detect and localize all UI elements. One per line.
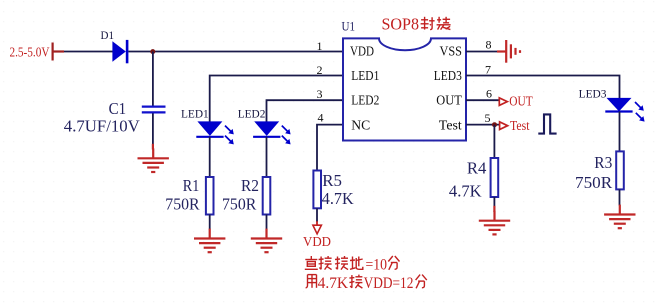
CJK feng	[421, 17, 435, 30]
ground VSS sideways	[497, 40, 520, 63]
svg-text:R4: R4	[467, 159, 487, 178]
svg-text:Test: Test	[439, 118, 462, 133]
LED LED1	[196, 121, 234, 144]
wire U1 pin 3 to LED2	[267, 100, 344, 122]
svg-text:VSS: VSS	[440, 44, 463, 59]
ground R1	[194, 229, 225, 253]
wire D1 to U1 pin 1	[128, 51, 343, 53]
svg-text:LED3: LED3	[579, 88, 607, 100]
port arrow Test	[500, 122, 508, 130]
wire C1 to ground	[152, 113, 154, 144]
resistor R2	[263, 177, 271, 215]
svg-text:SOP8: SOP8	[382, 15, 420, 34]
svg-text:VDD: VDD	[303, 234, 331, 249]
wire U1 pin 4 to R5	[317, 125, 343, 171]
svg-text:VDD=12: VDD=12	[364, 275, 414, 292]
svg-text:750R: 750R	[222, 195, 257, 214]
wire LED1 to R1	[209, 137, 211, 177]
LED LED2	[253, 121, 291, 144]
svg-text:8: 8	[486, 37, 492, 51]
svg-text:R5: R5	[322, 171, 342, 190]
svg-text:R3: R3	[594, 153, 612, 172]
svg-text:750R: 750R	[165, 195, 200, 214]
resistor R3	[616, 151, 624, 189]
resistor R4	[491, 158, 499, 197]
diode D1	[112, 40, 128, 63]
svg-text:3: 3	[317, 87, 323, 101]
wire R3 to ground	[619, 189, 621, 205]
resistor R1	[206, 177, 214, 215]
svg-text:4: 4	[318, 110, 324, 124]
svg-text:4.7K: 4.7K	[322, 189, 355, 208]
wire U1 pin 7 to LED3	[466, 76, 620, 99]
ground R3	[604, 205, 635, 229]
svg-text:750R: 750R	[575, 173, 613, 192]
svg-text:4.7K: 4.7K	[449, 181, 483, 200]
wire U1 pin 5 to Test	[466, 124, 500, 126]
CJK jie	[319, 256, 332, 270]
junction node Test	[492, 122, 497, 127]
svg-text:R2: R2	[241, 176, 259, 195]
wire junction to C1	[152, 52, 154, 107]
svg-text:4.7K: 4.7K	[318, 275, 349, 292]
wire Test node to R4	[493, 125, 495, 158]
CJK zhi	[305, 256, 318, 269]
svg-text:LED3: LED3	[434, 68, 462, 83]
CJK fen	[388, 256, 399, 270]
ground C1	[138, 148, 169, 172]
IC U1 body	[343, 38, 466, 140]
svg-text:LED1: LED1	[181, 109, 209, 121]
pulse waveform	[538, 114, 556, 133]
CJK yong	[306, 275, 317, 288]
svg-text:OUT: OUT	[436, 93, 462, 108]
ground R2	[251, 229, 282, 253]
svg-text:=10: =10	[366, 256, 388, 273]
svg-text:OUT: OUT	[509, 95, 533, 110]
annotation line 1: direct ground = 10 pts	[305, 256, 400, 273]
LED LED3	[605, 98, 644, 122]
svg-text:Test: Test	[510, 119, 530, 134]
svg-text:C1: C1	[109, 99, 127, 118]
power port VDD arrow	[313, 225, 322, 234]
wire source to D1	[64, 51, 113, 53]
capacitor C1	[142, 107, 166, 113]
svg-text:7: 7	[485, 63, 491, 77]
CJK jie 3	[349, 275, 362, 289]
port terminal bar	[53, 43, 64, 61]
CJK fen 2	[416, 275, 427, 289]
wire U1 pin 2 to LED1	[210, 76, 343, 123]
svg-text:2: 2	[317, 63, 323, 77]
svg-text:1: 1	[317, 39, 323, 53]
svg-text:6: 6	[486, 87, 492, 101]
svg-text:LED1: LED1	[351, 68, 379, 83]
wire R5 to VDD port	[316, 208, 318, 222]
CJK zhuang	[437, 17, 451, 30]
svg-text:U1: U1	[342, 18, 356, 33]
annotation line 2: with 4.7K to VDD = 12 pts	[306, 275, 427, 292]
wire LED3 to R3	[619, 112, 621, 152]
resistor R5	[313, 171, 321, 209]
CJK di	[350, 257, 363, 270]
wire U1 pin 6 to OUT	[466, 99, 500, 101]
wire R2 to ground	[266, 215, 268, 230]
ground R4	[479, 211, 510, 235]
svg-text:D1: D1	[101, 28, 115, 42]
svg-text:R1: R1	[183, 176, 200, 195]
svg-text:LED2: LED2	[238, 109, 266, 121]
wire U1 pin 8 to VSS ground	[466, 51, 498, 53]
wire R1 to ground	[209, 215, 211, 230]
svg-text:LED2: LED2	[351, 93, 379, 108]
svg-text:VDD: VDD	[350, 44, 374, 59]
label SOP8 package	[382, 15, 451, 34]
junction node A	[150, 49, 155, 54]
svg-text:2.5-5.0V: 2.5-5.0V	[10, 46, 50, 61]
svg-text:4.7UF/10V: 4.7UF/10V	[64, 117, 141, 136]
wire LED2 to R2	[266, 137, 268, 177]
svg-text:5: 5	[485, 111, 491, 125]
CJK jie 2	[335, 256, 348, 270]
wire R4 to ground	[493, 197, 495, 207]
port arrow OUT	[499, 98, 507, 106]
svg-text:NC: NC	[351, 118, 370, 133]
